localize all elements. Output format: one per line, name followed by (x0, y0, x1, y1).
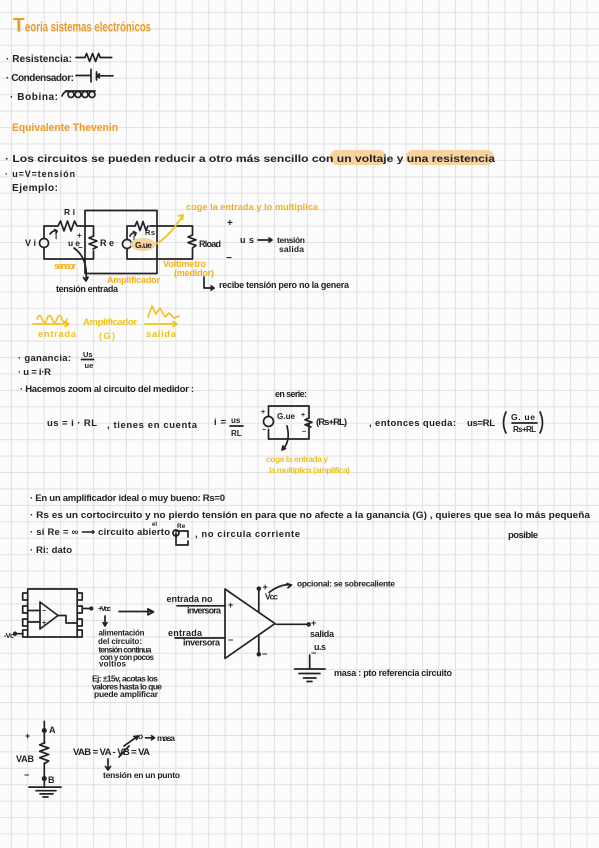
svg-text:i: i (133, 235, 135, 242)
IC output step (58, 616, 77, 624)
arrow to opcional (269, 584, 292, 593)
svg-text:−: − (42, 608, 46, 615)
resistor Rs (135, 222, 148, 231)
svg-text:ue: ue (85, 361, 94, 370)
svg-text:· Resistencia:: · Resistencia: (6, 54, 72, 65)
output wire (276, 623, 308, 625)
svg-text:+: + (42, 620, 46, 627)
svg-text:i =: i = (214, 417, 226, 428)
svg-text:Ri: Ri (64, 207, 75, 217)
strike through VB (119, 746, 129, 757)
svg-text:o: o (138, 731, 143, 741)
down arrow from +Vcc (103, 616, 107, 626)
svg-text:G.ue: G.ue (277, 412, 296, 421)
node A (43, 729, 46, 732)
svg-text:, no circula corriente: , no circula corriente (195, 529, 300, 540)
svg-text:inversora: inversora (183, 638, 221, 648)
svg-text:masa : pto referencia circuito: masa : pto referencia circuito (334, 668, 453, 678)
source Vi (40, 239, 49, 248)
arrow to masa (124, 736, 138, 746)
svg-text:Us: Us (83, 350, 93, 359)
svg-text:−: − (262, 427, 266, 434)
svg-text:salida: salida (146, 329, 177, 340)
svg-text:+: + (261, 409, 265, 416)
svg-text:salida: salida (279, 244, 304, 254)
svg-text:VAB = VA - VB = VA: VAB = VA - VB = VA (73, 747, 150, 758)
resistor Ri (58, 221, 77, 231)
svg-text:Rload: Rload (199, 239, 221, 249)
resistor symbol (76, 54, 112, 62)
svg-text:entrada: entrada (38, 329, 77, 340)
svg-text:+: + (311, 618, 316, 628)
svg-text:, entonces queda:: , entonces queda: (369, 418, 456, 429)
svg-text:(medidor): (medidor) (174, 268, 214, 278)
arrow from small circuit to yellow note (282, 426, 288, 450)
svg-text:entrada: entrada (168, 628, 203, 638)
measuring loop wires (127, 226, 193, 259)
resistor Re (89, 236, 97, 249)
Vcc top line (258, 588, 260, 612)
svg-text:tensión entrada: tensión entrada (56, 284, 119, 294)
arrow ue to tension entrada (74, 248, 86, 280)
svg-text:us: us (231, 416, 241, 425)
svg-text:RL: RL (231, 429, 242, 438)
svg-text:us = i · RL: us = i · RL (47, 418, 97, 429)
svg-text:· Rs es un cortocircuito y no: · Rs es un cortocircuito y no pierdo ten… (30, 510, 591, 521)
svg-text:· Ri: dato: · Ri: dato (30, 545, 72, 556)
svg-text:A: A (49, 725, 56, 735)
svg-text:· u = i·R: · u = i·R (18, 367, 51, 378)
IC chip body (28, 589, 77, 637)
svg-text:i: i (55, 232, 57, 241)
svg-text:coge la entrada y: coge la entrada y (266, 454, 328, 464)
+Vcc wire right (82, 608, 91, 610)
svg-text:· ganancia:: · ganancia: (18, 353, 71, 364)
big right arrow (119, 609, 154, 615)
L arrow recibe (204, 277, 214, 290)
svg-text:, tienes en cuenta: , tienes en cuenta (107, 420, 198, 431)
source G.ue small (264, 417, 274, 427)
small circuit box (269, 406, 310, 439)
svg-text:−: − (24, 770, 29, 780)
inductor symbol (62, 91, 95, 96)
capacitor symbol (76, 69, 113, 82)
svg-text:−: − (311, 648, 316, 658)
flow: entrada squiggle (37, 316, 67, 323)
svg-text:· En un amplificador ideal o: · En un amplificador ideal o muy bueno: … (30, 493, 225, 504)
amplifier box (85, 211, 157, 274)
node B (43, 777, 46, 780)
svg-text:puede amplificar: puede amplificar (94, 689, 159, 699)
svg-text:· Los circuitos se pueden redu: · Los circuitos se pueden reducir a otro… (5, 154, 496, 165)
svg-text:opcional: se sobrecaliente: opcional: se sobrecaliente (297, 579, 395, 589)
svg-text:+: + (263, 582, 268, 592)
svg-text:sensor: sensor (54, 261, 76, 271)
Vcc bottom line (258, 636, 260, 654)
svg-text:u s: u s (240, 235, 254, 245)
svg-text:la multiplica (amplifica): la multiplica (amplifica) (269, 465, 350, 475)
svg-text:Equivalente Thevenin: Equivalente Thevenin (12, 122, 118, 134)
svg-text:B: B (48, 775, 55, 785)
svg-text:+: + (301, 412, 305, 419)
IC op-amp triangle (40, 602, 58, 629)
yellow arrow to G.ue (156, 215, 183, 244)
VAB wire (43, 721, 45, 787)
svg-text:posible: posible (508, 530, 538, 541)
svg-text:+: + (77, 231, 82, 240)
svg-text:masa: masa (157, 733, 175, 743)
current arrow i2 (130, 232, 136, 237)
resistor Rs+RL (305, 418, 312, 427)
svg-text:Re: Re (177, 523, 186, 530)
svg-text:salida: salida (310, 629, 335, 639)
svg-text:+: + (227, 218, 233, 229)
svg-text:inversora: inversora (187, 606, 222, 616)
svg-text:entrada no: entrada no (167, 594, 214, 604)
svg-text:+: + (25, 731, 30, 741)
svg-text:T: T (13, 16, 25, 37)
highlight: una resistencia (406, 150, 494, 165)
svg-text:+Vcc: +Vcc (98, 604, 111, 613)
svg-text:· Condensador:: · Condensador: (6, 73, 74, 84)
svg-text:voltios: voltios (99, 660, 127, 669)
svg-text:−: − (226, 253, 232, 264)
resistor VAB (40, 743, 49, 764)
source G.ue (123, 240, 132, 249)
highlight: un voltaje (330, 150, 386, 165)
svg-text:G. ue: G. ue (511, 412, 535, 422)
svg-text:(Rs+RL): (Rs+RL) (316, 417, 347, 428)
flow: salida squiggle (148, 306, 179, 318)
IC pins right (77, 593, 82, 637)
svg-text:· si Re = ∞ ⟶ circuito abierto: · si Re = ∞ ⟶ circuito abierto (30, 527, 170, 538)
svg-text:Vcc: Vcc (265, 592, 278, 602)
svg-text:−: − (262, 649, 267, 659)
current arrow i (50, 231, 57, 234)
svg-text:−: − (78, 243, 83, 252)
svg-text:· u=V=tensión: · u=V=tensión (5, 169, 75, 179)
wire left loop (44, 226, 94, 259)
svg-text:Rs+RL: Rs+RL (513, 425, 536, 434)
svg-text:+: + (228, 600, 233, 610)
down arrow (106, 759, 111, 770)
svg-text:Rs: Rs (145, 228, 155, 237)
svg-text:Vi: Vi (25, 238, 36, 248)
svg-text:· Hacemos zoom al circuito del: · Hacemos zoom al circuito del medidor : (20, 384, 194, 395)
svg-text:coge la entrada y lo multipl: coge la entrada y lo multiplica (186, 202, 319, 212)
highlight G.ue (131, 238, 156, 251)
IC pins left (23, 593, 28, 637)
svg-text:−: − (302, 429, 306, 436)
svg-text:us=RL: us=RL (467, 418, 495, 429)
svg-text:VAB: VAB (16, 754, 35, 764)
op-amp triangle (225, 589, 275, 658)
svg-text:en serie:: en serie: (275, 389, 307, 399)
svg-text:−: − (228, 635, 233, 645)
resistor RLoad (188, 235, 196, 248)
svg-text:· Bobina:: · Bobina: (10, 92, 58, 103)
svg-text:recibe tensión pero no la gene: recibe tensión pero no la genera (219, 280, 350, 290)
svg-text:(G): (G) (99, 331, 115, 341)
svg-text:Ejemplo:: Ejemplo: (12, 183, 58, 194)
svg-text:G.ue: G.ue (135, 240, 152, 250)
ground bottom (29, 787, 61, 797)
svg-text:eoría sistemas electrónicos: eoría sistemas electrónicos (25, 20, 151, 35)
svg-text:Amplificador: Amplificador (83, 317, 137, 328)
svg-text:tensión en un punto: tensión en un punto (103, 770, 180, 780)
svg-text:-Vc: -Vc (4, 631, 14, 640)
